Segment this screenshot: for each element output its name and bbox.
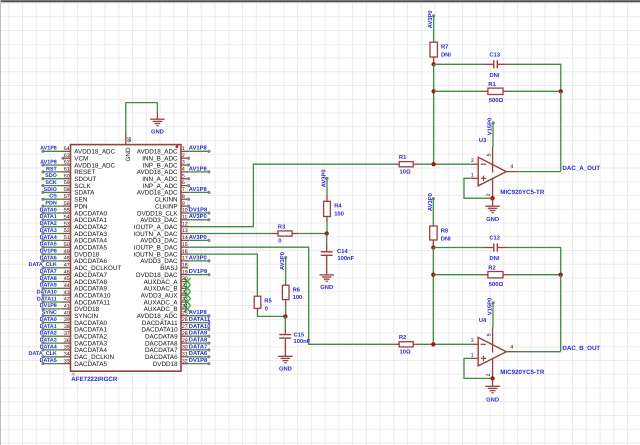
wire pin15 IOUTP_B_DAC to R2 xyxy=(189,247,393,344)
svg-text:49: 49 xyxy=(64,249,70,255)
ground GND (U3) xyxy=(485,198,500,223)
svg-text:48: 48 xyxy=(64,256,70,262)
pin 51 ADCDATA4 / net DATA4 xyxy=(40,235,108,245)
pin 39 DACDATA0 / net DATA0 xyxy=(40,317,108,327)
pin 11 AVDD3_DAC / net AV3P0 xyxy=(140,213,210,224)
svg-text:20: 20 xyxy=(182,276,188,282)
svg-text:AV1P8: AV1P8 xyxy=(189,165,208,172)
svg-text:R6: R6 xyxy=(293,286,301,293)
pin 18 BIASJ xyxy=(160,262,188,272)
svg-text:39: 39 xyxy=(64,317,70,323)
wire R1-500 row left xyxy=(434,90,482,92)
junction R7 rail / R1-10 row xyxy=(431,162,435,166)
svg-text:DAC_A_OUT: DAC_A_OUT xyxy=(562,165,600,172)
pin 23 AUXADC_A xyxy=(144,297,191,307)
pin 40 SYNCIN / net SYNC xyxy=(41,310,98,320)
pin 28 DACDATA9 / net DATA9 xyxy=(145,330,211,341)
svg-text:DATA1: DATA1 xyxy=(40,214,57,220)
svg-text:R8: R8 xyxy=(441,227,449,234)
right rail down to output B xyxy=(560,275,562,352)
capacitor C12 DNI xyxy=(483,235,508,263)
pin 31 DACDATA6 / net DATA6 xyxy=(145,350,211,361)
wire R2-10 to opamp pin3 xyxy=(420,343,471,345)
svg-text:36: 36 xyxy=(64,338,70,344)
svg-text:R2: R2 xyxy=(488,265,495,272)
pin 45 ADCDATA8 / net DATA8 xyxy=(40,276,108,286)
resistor R7 DNI xyxy=(430,42,451,64)
svg-text:40: 40 xyxy=(64,310,70,316)
capacitor C13 DNI xyxy=(483,51,508,79)
pin 49 DVDD18 / net DV1P8 xyxy=(40,249,100,259)
svg-text:51: 51 xyxy=(64,235,70,241)
svg-text:10Ω: 10Ω xyxy=(400,168,411,175)
svg-text:AV1P8: AV1P8 xyxy=(189,186,208,193)
pin 34 DAC_DCLKIN / net DATA_CLK xyxy=(29,351,115,361)
pin 54 ADCDATA1 / net DATA1 xyxy=(40,214,108,224)
junction R7/C13 node xyxy=(431,62,435,66)
svg-text:DV1P8: DV1P8 xyxy=(189,357,208,364)
svg-text:2: 2 xyxy=(486,193,492,196)
svg-text:RST: RST xyxy=(46,166,57,172)
svg-text:MIC920YC5-TR: MIC920YC5-TR xyxy=(500,189,545,196)
pin 26 DACDATA11 / net DATA11 xyxy=(142,317,211,327)
pin 47 ADC_DCLKOUT / net DATA_CLK xyxy=(29,262,122,272)
svg-text:AV1P8: AV1P8 xyxy=(40,159,57,165)
pin 43 ADCDATA10 / net DATA10 xyxy=(37,290,111,300)
svg-text:16: 16 xyxy=(182,249,188,255)
svg-text:DNI: DNI xyxy=(490,73,500,79)
svg-text:AV1P8: AV1P8 xyxy=(189,309,208,316)
svg-text:54: 54 xyxy=(64,215,70,221)
svg-text:DATA10: DATA10 xyxy=(189,323,211,330)
svg-text:C12: C12 xyxy=(489,235,500,242)
pin 46 ADCDATA7 / net DATA7 xyxy=(40,269,108,279)
wire U3 output to DAC_A_OUT xyxy=(518,171,561,173)
svg-text:DV1P8: DV1P8 xyxy=(40,303,57,309)
svg-text:4: 4 xyxy=(510,164,513,170)
op IC U1 AFE7222IRGCR body xyxy=(71,145,182,384)
pin 48 ADCDATA6 / net DATA6 xyxy=(40,255,108,265)
svg-text:DATA7: DATA7 xyxy=(40,269,57,275)
svg-text:CS: CS xyxy=(49,194,57,200)
pin 44 ADCDATA9 / net DATA9 xyxy=(40,283,108,293)
junction node B (R5/R6/C15) xyxy=(283,314,287,318)
wire pin12 IOUTP_A_DAC to R1 xyxy=(189,164,393,227)
svg-text:55: 55 xyxy=(64,208,70,214)
junction left R1-500 node xyxy=(431,89,435,93)
pin 9 CLKINP xyxy=(155,201,190,211)
svg-text:59: 59 xyxy=(64,180,70,186)
wire R2-500 row left xyxy=(433,274,481,276)
svg-text:AV3P0: AV3P0 xyxy=(189,213,207,220)
pin 13 IOUTN_A_DAC xyxy=(134,228,190,238)
resistor R4 100 xyxy=(324,195,344,222)
capacitor C14 100nF xyxy=(321,234,355,275)
svg-text:47: 47 xyxy=(64,262,70,268)
svg-text:10Ω: 10Ω xyxy=(400,349,411,356)
wire R5 to node B xyxy=(258,312,286,316)
resistor R2 10 xyxy=(394,334,420,356)
wire U4 output to DAC_B_OUT xyxy=(518,351,561,353)
pin 10 DVDD18_CLK / net DV1P8 xyxy=(137,206,211,217)
svg-text:22: 22 xyxy=(182,290,188,296)
svg-text:SDIO: SDIO xyxy=(44,187,57,193)
resistor R2 500 xyxy=(482,265,510,289)
svg-text:DATA3: DATA3 xyxy=(40,338,57,344)
svg-text:8: 8 xyxy=(182,194,185,200)
right rail down to output A xyxy=(560,91,562,171)
svg-text:IC: IC xyxy=(72,371,76,376)
svg-text:DV1P8: DV1P8 xyxy=(40,249,57,255)
pin 15 IOUTP_B_DAC xyxy=(134,242,189,252)
pin 1 AVDD18_ADC / net AV1P8 xyxy=(137,145,211,156)
pin 21 AUXDAC_B xyxy=(144,283,191,293)
pin 4 AVDD18_ADC / net AV1P8 xyxy=(137,165,211,176)
svg-text:4: 4 xyxy=(182,167,185,173)
wire pin65 to GND xyxy=(126,103,158,133)
svg-text:SYNC: SYNC xyxy=(42,310,57,316)
svg-text:AV1P8: AV1P8 xyxy=(189,145,208,152)
pin 63 VCM xyxy=(62,153,89,163)
power AV3P0 (above R6) xyxy=(279,252,287,270)
svg-text:DACDATA5: DACDATA5 xyxy=(74,361,107,368)
wire R6 to node B xyxy=(285,306,287,317)
pin 29 DACDATA8 / net DATA8 xyxy=(145,337,211,348)
svg-text:DATA0: DATA0 xyxy=(40,317,57,323)
svg-text:AV3P0: AV3P0 xyxy=(189,234,207,241)
pin 22 AVDD3_AUX xyxy=(141,290,191,300)
pin 57 SEN / net CS xyxy=(41,194,87,204)
pin 20 AUXDAC_A xyxy=(144,276,191,286)
svg-text:GND: GND xyxy=(151,128,164,135)
pin 37 DACDATA2 / net DATA2 xyxy=(40,331,108,341)
wire R3 to node A xyxy=(299,233,327,235)
svg-text:DATA5: DATA5 xyxy=(40,242,57,248)
svg-text:1: 1 xyxy=(471,172,474,178)
svg-text:26: 26 xyxy=(182,317,188,323)
pin 5 INN_A_ADC xyxy=(142,173,190,183)
wire C13 row left xyxy=(434,63,484,65)
resistor R1 10 xyxy=(394,155,420,176)
svg-text:7: 7 xyxy=(182,187,185,193)
svg-text:63: 63 xyxy=(64,153,70,159)
pin 2 INN_B_ADC xyxy=(142,153,190,163)
svg-text:2: 2 xyxy=(182,153,185,159)
pin 25 AVDD18_ADC / net AV1P8 xyxy=(137,309,211,320)
op-amp U4 MIC920YC5-TR xyxy=(471,318,545,378)
svg-text:100nF: 100nF xyxy=(294,338,311,345)
junction U3 pin2 / gnd xyxy=(490,196,494,200)
pin 36 DACDATA3 / net DATA3 xyxy=(40,338,108,348)
pin 38 DACDATA1 / net DATA1 xyxy=(40,324,108,334)
svg-text:GND: GND xyxy=(279,366,292,373)
svg-text:SCK: SCK xyxy=(45,180,56,186)
pin 24 AUXADC_B xyxy=(144,304,191,314)
svg-text:0: 0 xyxy=(265,305,268,312)
pin 64 AVDD18_ADC / net AV1P8 xyxy=(40,146,115,156)
svg-text:DV1P8: DV1P8 xyxy=(189,206,208,213)
svg-text:R7: R7 xyxy=(441,45,448,51)
svg-text:DATA_CLK: DATA_CLK xyxy=(29,262,57,268)
svg-text:58: 58 xyxy=(64,187,70,193)
pin 56 PDN / net PDN xyxy=(41,201,88,211)
svg-text:PDN: PDN xyxy=(45,201,56,207)
svg-text:MIC920YC5-TR: MIC920YC5-TR xyxy=(500,369,545,376)
svg-text:DATA2: DATA2 xyxy=(40,221,57,227)
svg-text:15: 15 xyxy=(182,242,188,248)
svg-text:34: 34 xyxy=(64,352,70,358)
svg-text:DATA11: DATA11 xyxy=(37,296,57,302)
pin 65 GND pad of IC xyxy=(125,133,133,162)
svg-text:23: 23 xyxy=(182,297,188,303)
svg-text:DATA7: DATA7 xyxy=(189,344,207,350)
svg-text:13: 13 xyxy=(182,228,188,234)
svg-text:AV1P8: AV1P8 xyxy=(40,146,57,152)
svg-text:27: 27 xyxy=(182,324,188,330)
op-amp U3 MIC920YC5-TR xyxy=(471,137,545,198)
junction R8 rail / R2-10 row xyxy=(431,342,435,346)
svg-text:DATA0: DATA0 xyxy=(40,207,57,213)
svg-text:17: 17 xyxy=(182,256,188,262)
svg-text:DNI: DNI xyxy=(441,236,451,242)
svg-text:42: 42 xyxy=(64,297,70,303)
pin 60 SDOUT / net SDO xyxy=(41,173,96,183)
svg-text:6: 6 xyxy=(182,180,185,186)
svg-text:DATA5: DATA5 xyxy=(40,358,57,364)
svg-text:R3: R3 xyxy=(278,224,286,231)
svg-text:500Ω: 500Ω xyxy=(489,97,504,104)
svg-text:U4: U4 xyxy=(479,318,487,324)
pin 62 AVDD18_ADC / net AV1P8 xyxy=(40,159,115,169)
svg-text:DVDD18: DVDD18 xyxy=(153,361,178,368)
svg-text:12: 12 xyxy=(182,221,188,227)
wire AV3P0 to R4 xyxy=(326,178,328,195)
wire R1-10 to opamp pin3 xyxy=(420,163,471,165)
ground GND (U4) xyxy=(485,378,500,403)
pin 53 ADCDATA2 / net DATA2 xyxy=(40,221,108,231)
svg-text:DNI: DNI xyxy=(490,256,500,262)
svg-text:57: 57 xyxy=(64,194,70,200)
svg-text:GND: GND xyxy=(486,396,499,403)
pin 61 RESET / net RST xyxy=(41,166,95,176)
pin 16 IOUTN_B_DAC xyxy=(134,249,190,259)
pin 41 DVDD18 / net DV1P8 xyxy=(40,303,100,313)
wire pin13 IOUTN_A_DAC to R3 xyxy=(189,233,271,235)
svg-text:41: 41 xyxy=(64,304,70,310)
wire C12 to right rail xyxy=(508,248,561,275)
svg-text:32: 32 xyxy=(182,358,188,364)
svg-text:44: 44 xyxy=(64,283,70,289)
svg-text:SDO: SDO xyxy=(45,173,57,179)
pin 12 IOUTP_A_DAC xyxy=(134,221,189,231)
svg-text:61: 61 xyxy=(64,167,70,173)
wire AV3P0 to R8 xyxy=(432,199,434,226)
pin 33 DACDATA5 / net DATA5 xyxy=(40,358,108,368)
svg-text:GND: GND xyxy=(486,216,499,223)
capacitor C15 100nF xyxy=(279,316,311,356)
svg-text:30: 30 xyxy=(182,345,188,351)
pin 55 ADCDATA0 / net DATA0 xyxy=(40,207,108,217)
pin 8 CLKINN xyxy=(155,194,191,204)
resistor R3 0 xyxy=(272,224,299,245)
svg-text:DATA6: DATA6 xyxy=(189,350,208,357)
svg-text:DATA3: DATA3 xyxy=(40,228,57,234)
svg-text:33: 33 xyxy=(64,358,70,364)
pin 14 AVDD3_DAC / net AV3P0 xyxy=(140,234,210,245)
power V15P0 (U3 pin5) xyxy=(487,118,495,147)
power AV3P0 (above R4) xyxy=(321,169,329,187)
pin 42 ADCDATA11 / net DATA11 xyxy=(37,296,111,306)
resistor R5 0 xyxy=(254,296,272,312)
junction right R2-500 node xyxy=(559,273,563,277)
svg-text:53: 53 xyxy=(64,221,70,227)
svg-text:R1: R1 xyxy=(399,155,407,161)
pin 30 DACDATA7 / net DATA7 xyxy=(145,344,211,354)
svg-text:19: 19 xyxy=(182,269,188,275)
pin 59 SCLK / net SCK xyxy=(41,180,91,190)
svg-text:100: 100 xyxy=(334,211,344,218)
svg-text:46: 46 xyxy=(64,269,70,275)
vertical wire R8 node down xyxy=(432,248,434,345)
svg-text:500Ω: 500Ω xyxy=(489,281,504,288)
svg-text:5: 5 xyxy=(486,333,492,336)
resistor R8 DNI xyxy=(430,226,451,248)
svg-text:R2: R2 xyxy=(399,334,406,341)
wire C12 row left xyxy=(433,247,483,249)
svg-text:50: 50 xyxy=(64,242,70,248)
junction R8/C12 node xyxy=(431,245,435,249)
svg-text:C15: C15 xyxy=(294,331,305,338)
svg-text:AFE7222IRGCR: AFE7222IRGCR xyxy=(71,376,118,383)
junction node A (R3/R4/C14) xyxy=(325,231,329,235)
wire R4 to node A xyxy=(326,222,328,234)
svg-text:1: 1 xyxy=(182,146,185,152)
svg-text:25: 25 xyxy=(182,310,188,316)
svg-text:60: 60 xyxy=(64,173,70,179)
svg-text:DATA1: DATA1 xyxy=(40,324,57,330)
svg-text:R1: R1 xyxy=(488,82,496,88)
svg-text:62: 62 xyxy=(64,160,70,166)
svg-text:DATA8: DATA8 xyxy=(40,276,57,282)
power V15P0 (U4 pin5) xyxy=(487,298,495,327)
svg-text:DATA4: DATA4 xyxy=(40,344,57,350)
vertical wire R7 node down xyxy=(433,64,435,164)
svg-text:21: 21 xyxy=(182,283,188,289)
resistor R6 100 xyxy=(282,285,302,305)
svg-text:31: 31 xyxy=(182,352,188,358)
wire C13 to right rail xyxy=(508,64,561,91)
svg-text:DATA10: DATA10 xyxy=(37,290,57,296)
svg-text:4: 4 xyxy=(510,344,513,350)
svg-text:43: 43 xyxy=(64,290,70,296)
pin 7 AVDD18_ADC / net AV1P8 xyxy=(137,186,211,197)
svg-text:C13: C13 xyxy=(489,51,500,58)
svg-text:DATA9: DATA9 xyxy=(40,283,57,289)
svg-text:5: 5 xyxy=(182,173,185,179)
wire R1-500 to right rail xyxy=(510,90,561,92)
svg-text:U3: U3 xyxy=(479,137,487,144)
pin 35 DACDATA4 / net DATA4 xyxy=(40,344,108,354)
svg-text:0: 0 xyxy=(278,238,281,245)
svg-text:100: 100 xyxy=(293,294,303,301)
svg-text:28: 28 xyxy=(182,331,188,337)
pin 50 ADCDATA5 / net DATA5 xyxy=(40,242,108,252)
svg-text:GND: GND xyxy=(125,147,132,161)
pin 27 DACDATA10 / net DATA10 xyxy=(141,323,210,334)
svg-text:DNI: DNI xyxy=(441,53,451,59)
svg-text:14: 14 xyxy=(182,235,188,241)
wire AV3P0 to R6 xyxy=(285,258,287,286)
pin 17 AVDD3_DAC / net AV3P0 xyxy=(140,254,210,265)
pin 3 INP_B_ADC xyxy=(143,160,191,170)
svg-text:DATA2: DATA2 xyxy=(40,331,57,337)
pin 32 DVDD18 / net DV1P8 xyxy=(153,357,211,368)
junction U4 pin2 / gnd xyxy=(490,376,494,380)
svg-text:DV1P8: DV1P8 xyxy=(189,268,208,275)
power AV3P0 (above R8) xyxy=(427,193,435,211)
svg-text:9: 9 xyxy=(182,201,185,207)
ground GND (below C14) xyxy=(319,274,334,276)
svg-text:3: 3 xyxy=(471,338,474,344)
svg-text:C14: C14 xyxy=(337,248,348,255)
svg-text:R5: R5 xyxy=(264,298,272,304)
junction left R2-500 node xyxy=(431,273,435,277)
svg-text:DATA6: DATA6 xyxy=(40,255,57,261)
svg-text:5: 5 xyxy=(486,153,492,156)
wire R2-500 to right rail xyxy=(510,274,561,276)
wire U4 pin1 feedback to pin2 xyxy=(464,358,493,378)
svg-text:35: 35 xyxy=(64,345,70,351)
svg-text:64: 64 xyxy=(64,146,70,152)
pin 6 INP_A_ADC xyxy=(143,180,191,190)
svg-text:AV3P0: AV3P0 xyxy=(189,254,207,261)
wire U3 pin1 feedback to pin2 xyxy=(464,178,493,198)
svg-text:2: 2 xyxy=(486,374,492,377)
svg-text:DATA9: DATA9 xyxy=(189,330,208,337)
svg-text:24: 24 xyxy=(182,304,188,310)
pin 52 ADCDATA3 / net DATA3 xyxy=(40,228,108,238)
wire AV3P0 to R7 xyxy=(433,16,435,42)
pin 58 SDATA / net SDIO xyxy=(41,187,95,197)
pin 19 DVDD18_DAC / net DV1P8 xyxy=(136,268,211,279)
svg-text:10: 10 xyxy=(182,208,188,214)
svg-text:18: 18 xyxy=(182,262,188,268)
svg-text:GND: GND xyxy=(320,284,333,291)
svg-text:56: 56 xyxy=(64,201,70,207)
svg-text:3: 3 xyxy=(471,158,474,164)
power AV3P0 (above R7) xyxy=(427,10,435,28)
junction right R1-500 node xyxy=(559,89,563,93)
wire pin16 IOUTN_B_DAC to R5 xyxy=(189,254,257,296)
svg-text:100nF: 100nF xyxy=(337,255,354,262)
svg-text:DATA8: DATA8 xyxy=(189,337,208,344)
svg-text:DAC_B_OUT: DAC_B_OUT xyxy=(562,345,600,352)
svg-text:29: 29 xyxy=(182,338,188,344)
svg-text:DATA_CLK: DATA_CLK xyxy=(29,351,57,357)
svg-text:DATA4: DATA4 xyxy=(40,235,57,241)
svg-text:11: 11 xyxy=(182,215,187,221)
svg-text:1: 1 xyxy=(471,352,474,358)
svg-text:45: 45 xyxy=(64,276,70,282)
svg-text:3: 3 xyxy=(182,160,185,166)
svg-text:52: 52 xyxy=(64,228,70,234)
svg-text:DATA11: DATA11 xyxy=(189,317,211,323)
svg-text:R4: R4 xyxy=(334,204,342,210)
resistor R1 500 xyxy=(482,82,510,104)
svg-text:37: 37 xyxy=(64,331,70,337)
ground GND (below C15) xyxy=(278,355,293,357)
ground GND (top, IC pin 65) xyxy=(150,103,165,136)
